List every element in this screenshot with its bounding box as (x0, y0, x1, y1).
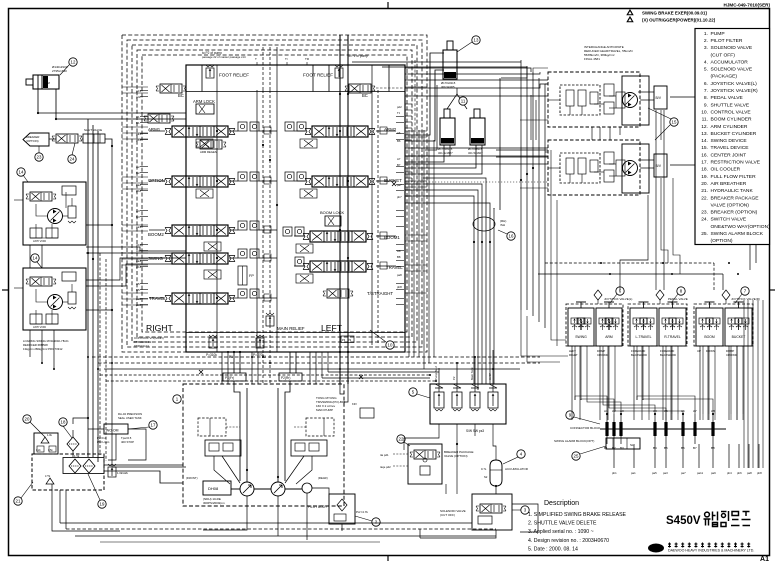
solenoid valve 2 of package (452, 384, 462, 411)
pump circle rear (271, 482, 285, 496)
swing device block 14 lower (23, 268, 86, 330)
description list (528, 512, 627, 552)
wire travel pilot downs (609, 127, 611, 140)
wire breather to tank (108, 434, 116, 460)
wire bucket cylinder (405, 53, 444, 135)
svg-text:BREAKER PACKAGE: BREAKER PACKAGE (711, 195, 760, 201)
svg-text:B5: B5 (136, 288, 140, 292)
svg-text:BUCKET CYLINDER: BUCKET CYLINDER (711, 131, 757, 137)
spool valve OPTION (165, 176, 235, 187)
svg-text:B7: B7 (693, 446, 697, 450)
control valve outer pilot boundary dashed 2 (127, 40, 422, 347)
svg-text:SWING ALARM BLOCK: SWING ALARM BLOCK (711, 231, 764, 237)
balloon 19 full flow filter (98, 500, 106, 508)
boom lock valve (325, 216, 341, 226)
svg-text:pa7: pa7 (681, 471, 686, 475)
wire bus to travel inlets (533, 68, 548, 72)
solenoid valve 4 of package (488, 384, 498, 411)
pr valve small (360, 408, 374, 418)
svg-text:pa9: pa9 (711, 471, 716, 475)
svg-text:FP: FP (249, 274, 254, 278)
svg-text:PILOT FILTER: PILOT FILTER (711, 38, 743, 44)
svg-text:13: 13 (474, 38, 479, 43)
svg-text:PEDAL VALVE: PEDAL VALVE (668, 297, 688, 301)
svg-text:B7: B7 (397, 163, 401, 167)
svg-text:1.5k: 1.5k (74, 454, 80, 458)
wire bottom long bus (60, 522, 472, 524)
svg-text:177k: 177k (45, 475, 51, 478)
connector block pins (605, 414, 714, 444)
balloon 14 lower (31, 254, 39, 262)
svg-text:PILOT BODY: PILOT BODY (308, 505, 328, 509)
tank filter housing (63, 458, 104, 474)
arm regen valve (196, 140, 226, 149)
frame tick left (2, 289, 8, 291)
wire travel feeds (520, 119, 548, 121)
svg-text:pb6: pb6 (737, 471, 742, 475)
swing internal wires lower (30, 323, 58, 325)
svg-text:A1: A1 (760, 556, 769, 562)
svg-text:SOLENOID VALVE: SOLENOID VALVE (711, 67, 753, 73)
control valve outer pilot boundary dashed 1 (122, 35, 427, 352)
svg-text:14: 14 (19, 170, 24, 175)
svg-text:6.: 6. (704, 81, 708, 87)
spool valve TRAVEL right (303, 261, 373, 272)
balloon 13 bucket cylinder (472, 36, 480, 44)
left port labels (136, 89, 148, 307)
svg-text:13kg/cm 280kg/cm² PRV 70912: 13kg/cm 280kg/cm² PRV 70912 (23, 347, 63, 351)
svg-text:JOYSTICK VALVE(L): JOYSTICK VALVE(L) (604, 297, 632, 301)
svg-text:ANTI VOID: ANTI VOID (33, 325, 46, 329)
svg-text:321.5x1827: 321.5x1827 (468, 151, 483, 155)
svg-text:21.: 21. (701, 188, 708, 194)
svg-text:BOOM: BOOM (704, 335, 715, 339)
svg-text:pa8: pa8 (747, 471, 752, 475)
svg-text:2.: 2. (704, 38, 708, 44)
wire bucket cyl verticals long (436, 85, 438, 150)
svg-text:18.: 18. (701, 167, 708, 173)
wire bottom bus verticals (59, 490, 61, 523)
svg-text:321.5x1827: 321.5x1827 (438, 151, 453, 155)
wire top tees (255, 57, 310, 65)
oil cooler diamond (67, 437, 79, 451)
wire right bus elbows to joysticks (521, 310, 568, 356)
frame tick bottom (387, 556, 389, 561)
wire boom cylinders (405, 145, 444, 162)
wire CV right port stubs (405, 104, 412, 196)
travel brake upper (616, 92, 625, 108)
svg-text:BREAKER (OPTION): BREAKER (OPTION) (711, 210, 758, 216)
travel inter-block stubs (591, 127, 593, 140)
pump port box P2 (279, 373, 302, 381)
travel BV box lower (654, 154, 667, 177)
svg-text:pb3: pb3 (136, 243, 141, 247)
svg-text:ARM LOCK: ARM LOCK (193, 99, 215, 104)
svg-text:pd2: pd2 (397, 105, 402, 109)
svg-text:SOLENOID VALVE: SOLENOID VALVE (711, 45, 753, 51)
travel internal wires upper (569, 106, 571, 115)
svg-text:BOOM CYLINDER: BOOM CYLINDER (711, 117, 753, 123)
travel motor lower (623, 161, 638, 176)
svg-text:A5: A5 (136, 282, 140, 286)
wire travel upper feed elbow (405, 68, 531, 72)
swing brake valve lower (26, 277, 56, 286)
bottom port labels (612, 471, 762, 475)
svg-text:1.0k/A2k: 1.0k/A2k (117, 471, 128, 475)
svg-text:(CUT OFF): (CUT OFF) (440, 513, 455, 517)
balloon 20 air breather (23, 415, 31, 423)
balloon 1 main pump (173, 395, 181, 403)
solenoid package top leads (438, 368, 440, 392)
balloon 2 pilot filter (372, 518, 380, 526)
svg-text:14.: 14. (701, 138, 708, 144)
wire center to travel feeds (496, 149, 548, 151)
joystick valve L dashed box (566, 304, 623, 346)
right port labels (396, 117, 404, 305)
wire travel feed verticals (530, 95, 532, 140)
wire CV top to right bus (352, 61, 521, 63)
svg-text:A1: A1 (136, 115, 140, 119)
svg-text:B8: B8 (397, 255, 401, 259)
control valve top compartment line (186, 91, 405, 93)
pump case drain (203, 496, 247, 530)
svg-text:15.: 15. (701, 145, 708, 151)
svg-text:(PACKAGE): (PACKAGE) (711, 74, 738, 80)
svg-text:DOWN: DOWN (706, 349, 715, 353)
wire pedal long verticals to ports (649, 414, 743, 420)
drawing title hangul (704, 511, 751, 527)
svg-text:CROWD: CROWD (597, 353, 608, 357)
svg-text:16: 16 (509, 234, 514, 239)
balloon 14 upper (17, 168, 25, 176)
svg-text:ARM: ARM (44, 81, 50, 85)
svg-text:HYDRAULIC TANK: HYDRAULIC TANK (711, 188, 754, 194)
swash linkage right (285, 456, 304, 483)
wire top center verticals (262, 47, 264, 90)
svg-text:pb4: pb4 (136, 265, 141, 269)
wire joystick supply dashed (545, 262, 714, 264)
svg-text:pb8: pb8 (397, 285, 402, 289)
svg-text:P2: P2 (452, 376, 456, 380)
svg-text:JOYSTICK VALVE(R): JOYSTICK VALVE(R) (731, 297, 760, 301)
left margin bus (87, 119, 89, 457)
svg-text:pa8: pa8 (397, 273, 402, 277)
svg-text:ARM CYLINDER: ARM CYLINDER (711, 124, 748, 130)
wire CV right edge verticals (409, 130, 434, 369)
control valve outer pilot boundary dashed 4 (137, 50, 412, 337)
pilot gear pump (302, 483, 312, 493)
svg-text:JOYSTICK VALVE(R): JOYSTICK VALVE(R) (711, 88, 758, 94)
svg-text:15: 15 (672, 120, 677, 125)
svg-text:9T66C0-01: 9T66C0-01 (134, 344, 149, 348)
control valve center gallery lines (339, 35, 341, 384)
wire BC right dashed to port (376, 87, 404, 89)
svg-text:B3: B3 (136, 215, 140, 219)
svg-text:B1: B1 (136, 121, 140, 125)
svg-text:LEFT: LEFT (321, 323, 343, 333)
svg-text:A1: A1 (604, 409, 608, 413)
svg-text:ANTI VOID: ANTI VOID (33, 239, 46, 243)
balloon 18 oil cooler (59, 418, 67, 426)
FP check symbol (238, 266, 247, 285)
svg-text:SWITCH VALVE: SWITCH VALVE (711, 217, 747, 223)
svg-text:L-TRAVEL: L-TRAVEL (636, 335, 652, 339)
svg-text:BOOM2: BOOM2 (148, 232, 164, 237)
svg-text:24.: 24. (701, 217, 708, 223)
wire dotted link to travel (405, 181, 548, 183)
port relief P370k (256, 335, 264, 348)
svg-text:RESTRICTION VALVE: RESTRICTION VALVE (711, 160, 761, 166)
svg-text:R-TRAVEL: R-TRAVEL (664, 335, 681, 339)
joystick valve R dashed box (694, 304, 753, 346)
svg-text:17.: 17. (701, 160, 708, 166)
swing motor upper (48, 209, 63, 224)
wire bus pump to CV (233, 352, 235, 373)
svg-text:CROWD: CROWD (726, 353, 737, 357)
svg-text:pa1: pa1 (136, 132, 141, 136)
swash linkage left (222, 456, 240, 483)
svg-text:N2: N2 (484, 475, 488, 479)
center joint coil (473, 217, 495, 231)
balloon 11 boom cylinder (459, 97, 467, 105)
svg-text:pa5: pa5 (652, 471, 657, 475)
pedal supply diamond (656, 290, 664, 300)
svg-text:400 STOP: 400 STOP (121, 440, 134, 444)
swing brake valve upper (26, 192, 56, 201)
tank relief valve (108, 464, 116, 477)
wire swing block1 to block2 (29, 245, 31, 268)
wire CV row feeders left bank (149, 131, 277, 298)
pump inner box left (198, 418, 226, 436)
svg-text:CENTER JOINT: CENTER JOINT (711, 152, 747, 158)
pump inner box right (306, 418, 334, 436)
wire pilot supply (312, 488, 329, 494)
svg-text:SWING: SWING (575, 335, 587, 339)
boom cylinder left (440, 118, 455, 145)
svg-text:VALVE (OPTION): VALVE (OPTION) (444, 454, 468, 458)
svg-text:SHUTTLE VALVE: SHUTTLE VALVE (711, 102, 750, 108)
svg-text:SWING DEVICE: SWING DEVICE (711, 138, 748, 144)
wire bottom buses to solenoid block (322, 377, 430, 379)
joystick L swing section (568, 308, 594, 346)
balloon 22 breaker package (397, 435, 405, 443)
wire cv top to travel (405, 72, 540, 74)
balloon 21 hydraulic tank (14, 497, 22, 505)
wire center joint tops (405, 196, 474, 208)
travel counterbalance upper (560, 85, 600, 115)
wire CV bottom verticals to pump (222, 352, 328, 384)
wire center joint verticals (473, 242, 475, 384)
svg-text:T: T (255, 57, 257, 61)
arm cylinder 12 (33, 75, 59, 89)
svg-text:Tr: Tr (285, 57, 288, 61)
right bank gallery lines (371, 65, 373, 345)
wire center bottom verticals (456, 444, 458, 494)
svg-text:1. SIMPLIFIED SWING BRAKE RELE: 1. SIMPLIFIED SWING BRAKE RELEASE (528, 512, 627, 518)
wire travel block feeds from bus (521, 294, 545, 310)
svg-text:pb2: pb2 (136, 189, 141, 193)
svg-text:300PS/2000rpm: 300PS/2000rpm (203, 501, 225, 505)
svg-text:B/V: B/V (656, 96, 662, 100)
balloon 9 connector block (566, 411, 574, 419)
svg-text:FINAL 45#1: FINAL 45#1 (584, 57, 600, 61)
main pump boundary dashed (183, 384, 344, 506)
breather box (34, 433, 58, 454)
travel device upper dashed box (548, 72, 640, 127)
CV right port texts (397, 105, 402, 289)
balloon 10 control valve (386, 341, 394, 349)
parts list box (695, 29, 770, 245)
svg-text:B6: B6 (397, 139, 401, 143)
svg-text:20.: 20. (701, 181, 708, 187)
svg-text:MAIN RELIEF: MAIN RELIEF (277, 326, 305, 331)
spool valve SWING (165, 253, 235, 264)
svg-text:14: 14 (33, 256, 38, 261)
svg-text:P=310k: P=310k (206, 353, 217, 357)
wire accumulator to solenoid (495, 486, 497, 494)
svg-text:pa2: pa2 (136, 183, 141, 187)
full flow filter diamond 1 (69, 459, 81, 473)
spool valve BUCKET (305, 176, 375, 187)
svg-text:(OPTION): (OPTION) (711, 238, 733, 244)
svg-text:BOOM LOCK: BOOM LOCK (320, 210, 345, 215)
balloon 23 breaker (35, 153, 43, 161)
svg-text:5.: 5. (704, 67, 708, 73)
svg-text:18: 18 (61, 420, 66, 425)
swing relief pair lower (30, 314, 42, 324)
joystick R bucket section (725, 308, 752, 346)
wire pedal supply verticals (597, 300, 599, 304)
CV P1 P2 port box (341, 336, 354, 343)
bucket cylinder 13 (443, 50, 457, 79)
revision warning triangle 2 (627, 17, 633, 23)
svg-text:(FRONT): (FRONT) (186, 476, 198, 480)
svg-text:T/STRAIGHT: T/STRAIGHT (367, 291, 393, 296)
connector block rail (600, 428, 726, 430)
svg-text:MAIN PUMP: MAIN PUMP (316, 408, 333, 412)
frame tick right (770, 289, 775, 291)
svg-text:(X) OUTRIGGER(POWER)(01.10.22): (X) OUTRIGGER(POWER)(01.10.22) (642, 18, 716, 23)
wire left dashed verticals (99, 253, 101, 455)
svg-text:BUCKET: BUCKET (445, 76, 454, 78)
svg-text:4. Design revision no. : 2003H: 4. Design revision no. : 2003H0670 (528, 538, 609, 544)
svg-text:12.: 12. (701, 124, 708, 130)
solenoid package block box (430, 384, 506, 424)
CV right boundary crossing stubs (405, 87, 427, 293)
travel device solid sub-box lower (622, 144, 649, 193)
svg-text:19.: 19. (701, 174, 708, 180)
svg-text:pb1: pb1 (136, 138, 141, 142)
swing alarm block box (606, 438, 640, 449)
wire joystick bundle verticals (575, 346, 743, 400)
svg-text:22: 22 (399, 437, 404, 442)
svg-text:OPTION: OPTION (148, 178, 165, 183)
svg-text:pa4: pa4 (136, 259, 141, 263)
joystick L arm section (596, 308, 622, 346)
svg-text:PUMP: PUMP (711, 31, 725, 37)
svg-text:A4: A4 (136, 249, 140, 253)
svg-text:HJMC-049-7010(SER): HJMC-049-7010(SER) (724, 3, 771, 8)
svg-text:10: 10 (388, 343, 393, 348)
accumulator 4 (490, 460, 502, 486)
main relief valve (266, 313, 274, 326)
svg-text:P2(Rr): P2(Rr) (281, 376, 290, 380)
svg-text:pa3: pa3 (136, 225, 141, 229)
svg-text:OIL COOLER: OIL COOLER (711, 167, 741, 173)
joystick L supply diamond (594, 290, 602, 300)
travel counterbalance lower (560, 153, 600, 183)
svg-text:pa1: pa1 (631, 471, 636, 475)
svg-text:A8: A8 (397, 249, 401, 253)
svg-text:24: 24 (70, 157, 75, 162)
regulator right (291, 440, 327, 456)
pump circle front (240, 482, 254, 496)
svg-text:UP: UP (697, 349, 701, 353)
svg-text:S450V: S450V (666, 515, 701, 527)
breaker option symbol 23 (23, 133, 49, 146)
svg-text:TRAVEL DEVICE: TRAVEL DEVICE (711, 145, 750, 151)
balloon 3 solenoid cutoff (521, 506, 529, 514)
wire travel BV drains (660, 110, 662, 140)
wire swing block1 left stub (14, 199, 23, 201)
svg-text:13.: 13. (701, 131, 708, 137)
svg-text:RIGHT: RIGHT (146, 323, 173, 333)
balloon 24 switch valve (68, 155, 76, 163)
wire return bus into tank (128, 429, 146, 460)
svg-text:25: 25 (574, 454, 579, 459)
balloon 4 accumulator (517, 450, 525, 458)
svg-text:VALVE (OPTION): VALVE (OPTION) (711, 202, 750, 208)
svg-text:8.: 8. (704, 95, 708, 101)
svg-text:FOOT RELIEF: FOOT RELIEF (303, 73, 333, 78)
svg-text:0.5k: 0.5k (48, 449, 53, 452)
swing device inner plumbing upper (36, 204, 48, 216)
travel brake lower (616, 160, 625, 176)
swing motor lower (48, 295, 63, 310)
wire joystick downs (572, 346, 737, 420)
pedal valve dashed box (628, 304, 687, 346)
svg-text:3.: 3. (704, 45, 708, 51)
svg-text:pb1: pb1 (612, 471, 617, 475)
pilot body block (329, 494, 355, 524)
engine box (203, 481, 231, 495)
company logo (648, 544, 664, 553)
svg-text:!: ! (631, 18, 632, 22)
svg-text:SWING BRAKE EXER(00.09.01): SWING BRAKE EXER(00.09.01) (642, 11, 707, 16)
wire tank suction to pump (104, 464, 183, 466)
travel device lower dashed box (548, 140, 640, 195)
parts list text (701, 31, 770, 244)
svg-text:passage 22 of master passage x: passage 22 of master passage x14 (202, 55, 246, 59)
spool valve ARM2 (305, 126, 375, 137)
travel relief pair lower (604, 152, 614, 164)
svg-text:A3: A3 (136, 209, 140, 213)
svg-text:pd1: pd1 (136, 89, 141, 93)
swing device inner plumbing lower (36, 289, 48, 302)
svg-text:BC: BC (178, 93, 184, 98)
wire breaker to valve (49, 138, 56, 140)
svg-text:DH08: DH08 (208, 486, 219, 491)
wire solenoid to accumulator (493, 430, 496, 460)
svg-text:ARM REGEN: ARM REGEN (200, 150, 217, 154)
travel motor upper (623, 93, 638, 108)
junction dots 2 (41, 262, 739, 382)
wire solenoid drains (512, 504, 538, 532)
spool valve TRAVEL left (165, 293, 235, 304)
svg-text:Pump No.2: Pump No.2 (434, 366, 438, 380)
spool valve BOOM2 (165, 225, 235, 236)
BC aux valve left (144, 114, 174, 123)
